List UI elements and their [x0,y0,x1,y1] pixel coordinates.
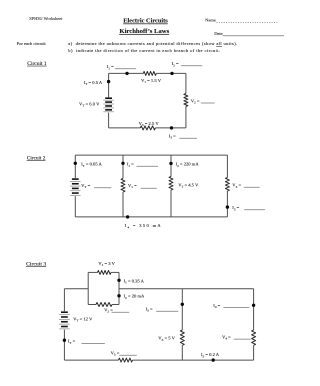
resistor R2 (V2) branch 3 [169,177,173,191]
svg-text:For each circuit:: For each circuit: [17,41,46,46]
wire: top branch right segment [111,271,119,273]
wire: branch 1 lower [74,196,76,217]
wire: left edge lower c3 [63,330,65,360]
resistor R4 (V4) right edge [252,330,256,345]
blank line for V5 c3 [119,354,137,356]
node dot I4 on bottom rail [126,215,129,218]
node dot I2 branch 3 [169,162,172,165]
node dot I3 on bottom wire [170,126,173,129]
wire: top branch left segment [88,271,97,273]
wire: circuit 1 bottom side right segment [155,127,186,129]
blank line for VT [94,187,111,189]
wire: rail from parallel block to right edge [119,288,254,290]
battery VT circuit 3 [61,311,68,313]
wire: branch 2 upper [122,155,124,178]
battery VT circuit 1 [105,97,112,99]
resistor R2 (V2) on right side [184,94,188,107]
svg-text:Circuit 2: Circuit 2 [27,156,46,161]
wire: branch 4 upper (right edge) [226,155,228,177]
wire: circuit 1 left side lower [108,113,110,128]
resistor R3 (V3) middle branch [180,330,184,345]
wire: branch 1 upper (left edge) [74,155,76,178]
resistor R3 (V3) on bottom side [140,126,155,130]
battery VT circuit 2 [72,178,79,180]
wire: bottom branch right segment [112,304,119,306]
blank line for V2 [201,102,215,104]
node dot I1 branch 2 [121,162,124,165]
node dot IT on left wire [107,80,110,83]
node dot I1 on top wire [125,72,128,75]
wire: circuit 1 top side left segment [109,72,144,74]
wire: circuit 2 top rail [75,154,227,156]
wire: middle branch upper c3 [181,289,183,330]
svg-text:SPH3U Worksheet: SPH3U Worksheet [29,16,63,21]
resistor R1 (V1) top branch c3 [98,270,112,274]
svg-text:a) determine the unknown curr: a) determine the unknown currents and po… [68,41,237,46]
svg-text:Kirchhoff’s Laws: Kirchhoff’s Laws [119,29,169,35]
resistor R5 (V5) bottom rail [119,358,133,362]
wire: circuit 1 top side right segment [156,72,186,74]
node dot I2 c3 [117,294,120,297]
wire: bottom branch left segment [88,304,96,306]
svg-text:Date: Date [214,31,223,36]
svg-text:Name: Name [205,18,216,23]
blank line for I1 c2 [137,165,159,167]
wire: right edge lower c3 [253,345,255,360]
wire: bottom rail right segment c3 [133,359,254,361]
wire: circuit 1 right side upper [185,73,187,93]
wire: middle branch lower c3 [181,345,183,360]
blank line for I2 [181,65,202,67]
svg-text:Circuit 1: Circuit 1 [27,62,47,67]
blank line for I1 [115,68,136,70]
node dot I1 c3 [117,279,120,282]
node dot I4 c3 [252,304,255,307]
blank line for V3 c2 [244,186,260,188]
node dot I5 c3 [212,358,215,361]
svg-text:Electric Circuits: Electric Circuits [123,19,168,25]
wire: circuit 1 bottom side left segment [109,127,141,129]
blank line for I3 c2 [244,209,265,211]
svg-text:Circuit 3: Circuit 3 [26,262,47,267]
wire: rail from left edge to parallel block [64,288,88,290]
blank line for I3 c3 [156,310,178,312]
node dot I3 branch 4 [226,205,229,208]
blank line for I3 [179,137,197,139]
wire: branch 3 upper [170,155,172,176]
wire: parallel block right bar [118,272,120,304]
wire: circuit 2 bottom rail [75,216,227,218]
node dot I2 on top wire [170,72,173,75]
wire: branch 3 lower [170,190,172,217]
wire: bottom rail left segment c3 [64,359,118,361]
resistor R1 (V1) on top side [143,71,156,75]
node dot I3 c3 [181,303,184,306]
resistor R1 (V1) branch 2 [121,179,125,193]
wire: circuit 1 left side upper [108,73,110,97]
resistor R3 (V3) branch 4 [225,178,229,192]
wire: parallel block left bar [87,272,89,304]
wire: branch 2 lower [122,192,124,217]
wire: circuit 1 right side lower [185,106,187,128]
blank line for V1 c2 [141,187,157,189]
resistor R2 (V2) bottom branch c3 [96,303,112,307]
wire: branch 4 lower [226,191,228,217]
blank line for V2 c3 [112,311,130,313]
blank line for IT c3 [82,342,105,344]
node dot IT branch 1 [74,162,77,165]
blank line for V4 c3 [234,338,251,340]
wire: right edge upper c3 [253,289,255,330]
wire: left edge upper c3 [63,289,65,312]
svg-text:b) indicate the direction of: b) indicate the direction of the current… [68,48,220,53]
blank line for I4 c3 [224,306,250,308]
node dot IT c3 [63,339,66,342]
